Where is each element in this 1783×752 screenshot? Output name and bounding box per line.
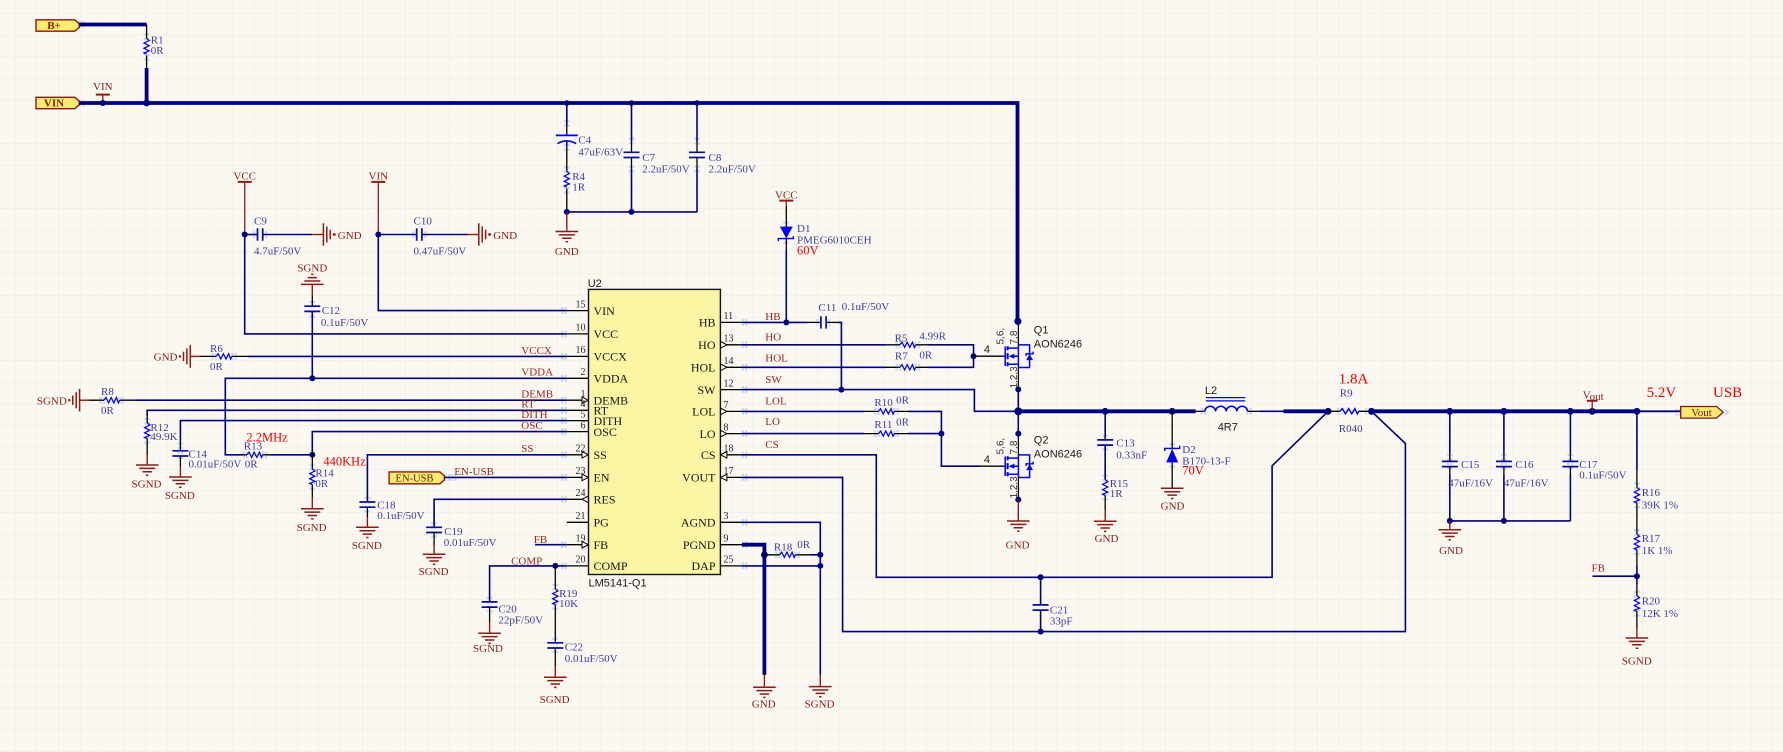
- svg-text:1R: 1R: [572, 182, 586, 194]
- svg-text:0R: 0R: [896, 416, 910, 428]
- svg-text:CS: CS: [701, 448, 716, 462]
- svg-text:R7: R7: [895, 351, 908, 363]
- svg-text:HOL: HOL: [765, 353, 788, 365]
- svg-text:19: 19: [576, 534, 586, 545]
- svg-text:C8: C8: [709, 152, 722, 164]
- svg-text:7,8: 7,8: [1009, 330, 1020, 344]
- svg-text:0.01uF/50V: 0.01uF/50V: [444, 537, 497, 549]
- svg-text:GND: GND: [338, 230, 362, 242]
- svg-text:U2: U2: [588, 278, 602, 290]
- svg-text:47uF/16V: 47uF/16V: [1448, 478, 1493, 490]
- svg-text:0.1uF/50V: 0.1uF/50V: [321, 317, 368, 329]
- svg-text:DAP: DAP: [691, 559, 715, 573]
- svg-text:C11: C11: [818, 302, 836, 314]
- svg-text:1,2,3: 1,2,3: [1009, 476, 1020, 499]
- svg-text:SS: SS: [594, 448, 607, 462]
- svg-text:SW: SW: [765, 374, 782, 386]
- svg-text:FB: FB: [594, 538, 609, 552]
- svg-text:D1: D1: [797, 223, 810, 235]
- svg-text:SW: SW: [698, 383, 717, 397]
- svg-text:4R7: 4R7: [1218, 422, 1238, 434]
- svg-text:0.01uF/50V: 0.01uF/50V: [189, 459, 242, 471]
- svg-text:2.2uF/50V: 2.2uF/50V: [642, 164, 689, 176]
- svg-text:R6: R6: [210, 343, 223, 355]
- svg-text:R040: R040: [1339, 423, 1363, 435]
- svg-text:47uF/63V: 47uF/63V: [578, 147, 623, 159]
- svg-text:LO: LO: [765, 416, 780, 428]
- svg-text:22pF/50V: 22pF/50V: [498, 614, 543, 626]
- svg-text:SGND: SGND: [540, 694, 570, 706]
- svg-text:22: 22: [576, 444, 586, 455]
- svg-text:R13: R13: [244, 441, 263, 453]
- svg-text:0R: 0R: [797, 539, 811, 551]
- svg-text:0.1uF/50V: 0.1uF/50V: [842, 301, 889, 313]
- svg-text:VDDA: VDDA: [521, 367, 553, 379]
- svg-text:L2: L2: [1205, 385, 1217, 397]
- svg-text:C12: C12: [322, 305, 340, 317]
- svg-text:18: 18: [724, 444, 734, 455]
- svg-text:SGND: SGND: [352, 540, 382, 552]
- svg-text:21: 21: [576, 511, 586, 522]
- svg-text:EN: EN: [594, 471, 610, 485]
- svg-text:7,8: 7,8: [1009, 440, 1020, 454]
- svg-text:VOUT: VOUT: [682, 471, 716, 485]
- svg-text:2: 2: [581, 367, 586, 378]
- svg-text:0R: 0R: [245, 459, 258, 471]
- svg-text:R16: R16: [1642, 487, 1661, 499]
- svg-text:9: 9: [724, 534, 729, 545]
- svg-text:R5: R5: [895, 332, 908, 344]
- svg-text:C13: C13: [1116, 437, 1135, 449]
- svg-text:LM5141-Q1: LM5141-Q1: [589, 578, 647, 590]
- svg-text:7: 7: [724, 400, 729, 411]
- svg-text:12: 12: [724, 378, 734, 389]
- svg-text:GND: GND: [1161, 501, 1185, 513]
- svg-text:B+: B+: [47, 20, 61, 32]
- svg-text:VDDA: VDDA: [594, 372, 629, 386]
- svg-text:R11: R11: [874, 419, 892, 431]
- svg-text:39K 1%: 39K 1%: [1642, 500, 1678, 512]
- svg-text:R9: R9: [1340, 387, 1353, 399]
- svg-text:HOL: HOL: [691, 361, 716, 375]
- svg-text:3: 3: [724, 511, 729, 522]
- svg-text:8: 8: [724, 422, 729, 433]
- svg-text:GND: GND: [752, 698, 776, 710]
- svg-text:Vout: Vout: [1691, 407, 1712, 419]
- svg-text:R18: R18: [774, 541, 793, 553]
- svg-text:C9: C9: [254, 215, 267, 227]
- svg-text:12K 1%: 12K 1%: [1642, 608, 1678, 620]
- svg-text:17: 17: [724, 466, 734, 477]
- svg-text:VCC: VCC: [233, 171, 256, 183]
- svg-text:HB: HB: [699, 316, 716, 330]
- svg-text:R17: R17: [1642, 533, 1661, 545]
- svg-text:47uF/16V: 47uF/16V: [1504, 478, 1549, 490]
- svg-text:5,6,: 5,6,: [995, 328, 1006, 345]
- svg-text:0.01uF/50V: 0.01uF/50V: [565, 653, 618, 665]
- svg-text:0.1uF/50V: 0.1uF/50V: [377, 510, 424, 522]
- svg-text:GND: GND: [1439, 545, 1463, 557]
- svg-text:SGND: SGND: [37, 396, 67, 408]
- svg-text:USB: USB: [1713, 385, 1742, 401]
- svg-text:EN-USB: EN-USB: [396, 474, 434, 485]
- svg-text:LOL: LOL: [765, 395, 787, 407]
- svg-text:FB: FB: [1592, 562, 1605, 574]
- svg-text:HB: HB: [765, 311, 780, 323]
- svg-text:24: 24: [576, 488, 586, 499]
- svg-text:LO: LO: [700, 427, 716, 441]
- svg-text:C10: C10: [414, 215, 433, 227]
- svg-text:70V: 70V: [1182, 463, 1204, 477]
- svg-text:VCCX: VCCX: [594, 350, 628, 364]
- svg-text:SGND: SGND: [297, 522, 327, 534]
- svg-text:1K 1%: 1K 1%: [1642, 545, 1673, 557]
- svg-text:0R: 0R: [896, 394, 910, 406]
- svg-text:0R: 0R: [210, 361, 224, 373]
- svg-text:C4: C4: [578, 135, 591, 147]
- svg-text:HO: HO: [765, 331, 781, 343]
- svg-text:SGND: SGND: [473, 643, 503, 655]
- svg-text:SS: SS: [521, 443, 533, 455]
- svg-text:GND: GND: [493, 230, 517, 242]
- svg-text:5,6,: 5,6,: [995, 438, 1006, 455]
- svg-text:4: 4: [984, 344, 990, 356]
- svg-text:R10: R10: [874, 397, 893, 409]
- svg-text:14: 14: [724, 356, 734, 367]
- svg-text:0R: 0R: [315, 478, 329, 490]
- svg-text:10K: 10K: [559, 598, 578, 610]
- svg-text:16: 16: [576, 345, 586, 356]
- svg-text:VCCX: VCCX: [521, 345, 552, 357]
- svg-text:AGND: AGND: [681, 516, 716, 530]
- svg-text:GND: GND: [1006, 540, 1030, 552]
- svg-text:SGND: SGND: [419, 566, 449, 578]
- svg-text:0R: 0R: [101, 405, 115, 417]
- svg-text:SGND: SGND: [132, 479, 162, 491]
- svg-text:OSC: OSC: [521, 420, 542, 432]
- svg-text:SGND: SGND: [297, 263, 327, 275]
- svg-text:Q1: Q1: [1034, 325, 1049, 337]
- svg-text:R8: R8: [101, 386, 114, 398]
- svg-text:25: 25: [724, 555, 734, 566]
- svg-text:C15: C15: [1461, 459, 1480, 471]
- svg-text:33pF: 33pF: [1050, 615, 1073, 627]
- svg-text:AON6246: AON6246: [1034, 339, 1082, 351]
- svg-text:1,2,3: 1,2,3: [1009, 366, 1020, 389]
- svg-text:11: 11: [724, 311, 734, 322]
- svg-text:HO: HO: [698, 338, 716, 352]
- svg-text:OSC: OSC: [594, 425, 617, 439]
- svg-text:AON6246: AON6246: [1034, 449, 1082, 461]
- svg-text:5: 5: [581, 409, 586, 420]
- svg-text:20: 20: [576, 555, 586, 566]
- svg-text:0.47uF/50V: 0.47uF/50V: [414, 246, 467, 258]
- svg-text:COMP: COMP: [594, 559, 628, 573]
- svg-text:SGND: SGND: [805, 698, 835, 710]
- svg-text:GND: GND: [154, 352, 178, 364]
- svg-text:440KHz: 440KHz: [323, 455, 366, 469]
- svg-text:GND: GND: [1095, 533, 1119, 545]
- svg-text:1.8A: 1.8A: [1339, 372, 1369, 388]
- svg-text:PG: PG: [594, 516, 610, 530]
- svg-text:VIN: VIN: [93, 81, 113, 93]
- svg-text:C7: C7: [642, 152, 655, 164]
- svg-text:13: 13: [724, 334, 734, 345]
- svg-text:VIN: VIN: [594, 304, 616, 318]
- svg-text:5.2V: 5.2V: [1647, 385, 1677, 401]
- svg-text:23: 23: [576, 466, 586, 477]
- svg-text:60V: 60V: [797, 244, 819, 258]
- svg-text:4.7uF/50V: 4.7uF/50V: [254, 246, 301, 258]
- svg-text:LOL: LOL: [692, 405, 715, 419]
- svg-text:SGND: SGND: [165, 490, 195, 502]
- svg-text:0.1uF/50V: 0.1uF/50V: [1579, 470, 1626, 482]
- svg-text:C16: C16: [1515, 459, 1534, 471]
- svg-text:C22: C22: [565, 642, 583, 654]
- svg-text:GND: GND: [555, 246, 579, 258]
- svg-text:VCC: VCC: [775, 189, 798, 201]
- svg-text:2.2uF/50V: 2.2uF/50V: [709, 164, 756, 176]
- svg-text:1R: 1R: [1110, 488, 1124, 500]
- svg-text:SGND: SGND: [1622, 656, 1652, 668]
- svg-text:D2: D2: [1182, 444, 1195, 456]
- svg-text:Q2: Q2: [1034, 435, 1049, 447]
- svg-text:10: 10: [576, 323, 586, 334]
- svg-text:CS: CS: [765, 439, 778, 451]
- svg-text:49.9K: 49.9K: [150, 431, 177, 443]
- svg-text:EN-USB: EN-USB: [454, 466, 494, 478]
- svg-text:RES: RES: [594, 493, 616, 507]
- svg-text:VIN: VIN: [44, 98, 64, 110]
- svg-text:4.99R: 4.99R: [919, 331, 946, 343]
- svg-text:VIN: VIN: [369, 171, 389, 183]
- svg-text:VCC: VCC: [594, 327, 619, 341]
- svg-text:0.33nF: 0.33nF: [1116, 449, 1147, 461]
- svg-text:0R: 0R: [919, 350, 933, 362]
- svg-text:0R: 0R: [151, 45, 165, 57]
- svg-text:15: 15: [576, 299, 586, 310]
- svg-text:4: 4: [984, 454, 990, 466]
- svg-text:6: 6: [581, 420, 586, 431]
- svg-text:PGND: PGND: [683, 538, 716, 552]
- svg-text:R20: R20: [1642, 596, 1661, 608]
